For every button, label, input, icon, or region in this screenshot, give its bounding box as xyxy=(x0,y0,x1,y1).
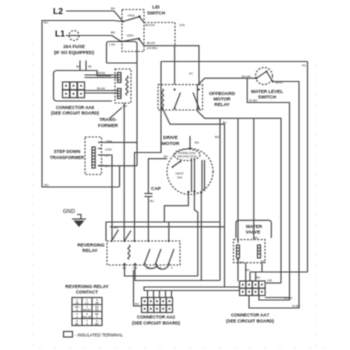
svg-text:WATER: WATER xyxy=(246,224,263,229)
svg-text:GND: GND xyxy=(63,209,75,215)
svg-text:RELAY: RELAY xyxy=(214,102,229,107)
svg-text:16A FUSE: 16A FUSE xyxy=(63,44,85,49)
insulated terminal legend xyxy=(64,332,73,338)
offboard relay coil xyxy=(162,89,164,109)
band stubs to AA2 xyxy=(147,291,149,298)
reversing relay contacts xyxy=(134,240,136,242)
svg-text:BK/BU: BK/BU xyxy=(83,308,91,312)
wire valve feed 2 xyxy=(253,118,255,239)
water valve loom xyxy=(236,220,271,238)
svg-text:OPEN: OPEN xyxy=(126,35,133,38)
wire L2 lead xyxy=(66,11,123,21)
svg-text:- INSULATED TERMINAL: - INSULATED TERMINAL xyxy=(75,333,124,338)
svg-text:32-BK: 32-BK xyxy=(249,99,259,103)
svg-text:P2: P2 xyxy=(302,64,306,68)
svg-text:BU/GN: BU/GN xyxy=(145,23,155,27)
lid switch box xyxy=(122,10,144,52)
wire relay feeds from motor area xyxy=(106,222,220,241)
svg-text:BU: BU xyxy=(44,183,48,187)
step down transformer coil bar xyxy=(92,147,95,168)
step down transformer dashed box xyxy=(85,137,102,175)
wire sdt BN down xyxy=(104,155,112,240)
wire AA7 bottom out xyxy=(265,297,290,299)
wire offboard drop right xyxy=(219,118,221,280)
svg-text:REVERSING: REVERSING xyxy=(77,243,104,248)
transformer T1 primary blocks xyxy=(118,73,122,83)
svg-text:BU: BU xyxy=(44,21,48,25)
motor windings xyxy=(191,158,193,192)
fuse F1 xyxy=(69,31,79,41)
svg-text:(IF SO EQUIPPED): (IF SO EQUIPPED) xyxy=(54,50,95,55)
svg-text:BU: BU xyxy=(88,65,92,69)
water level switch box xyxy=(247,78,289,300)
scan noise column right xyxy=(315,64,316,345)
svg-text:TRANSFORMER: TRANSFORMER xyxy=(50,155,85,160)
svg-text:BA/L.BU: BA/L.BU xyxy=(82,315,92,319)
svg-text:MOTOR: MOTOR xyxy=(162,141,180,147)
svg-text:SWITCH: SWITCH xyxy=(258,95,277,100)
water valve coil 1 xyxy=(237,245,240,258)
svg-text:(24-BK): (24-BK) xyxy=(147,46,158,50)
wire motor bottom leads xyxy=(164,192,188,222)
wire y172 xyxy=(119,166,121,187)
wire AA6 stubs up xyxy=(79,61,81,71)
wire right vertical x305 xyxy=(307,62,309,273)
svg-text:CONNECTOR AA7: CONNECTOR AA7 xyxy=(231,313,270,318)
offboard motor relay dashed box xyxy=(158,85,203,110)
wire main left vertical xyxy=(135,62,162,242)
relay bottom arcs xyxy=(145,266,158,269)
wire valve BK jog xyxy=(261,263,263,272)
svg-text:34-OR: 34-OR xyxy=(241,75,251,79)
svg-text:TRANS-: TRANS- xyxy=(99,117,117,122)
svg-text:OR: OR xyxy=(267,279,272,283)
wire valve feed 1 xyxy=(237,118,239,243)
svg-text:CONTACT: CONTACT xyxy=(76,290,98,295)
svg-text:CONNECTOR AA2: CONNECTOR AA2 xyxy=(137,315,176,320)
cent switch xyxy=(172,166,174,168)
svg-text:L2: L2 xyxy=(53,6,63,16)
svg-text:120V: 120V xyxy=(105,148,113,152)
svg-text:RD: RD xyxy=(215,135,220,139)
relay bottom U loop 2 xyxy=(135,265,220,281)
svg-text:BU: BU xyxy=(135,302,139,306)
svg-text:MOTOR: MOTOR xyxy=(213,97,231,102)
reversing relay contact table xyxy=(72,298,102,326)
transformer T1 secondary coil xyxy=(126,76,128,95)
svg-text:BU: BU xyxy=(164,155,168,159)
wire L1 lead xyxy=(66,36,121,42)
svg-text:(SEE CIRCUIT BOARD): (SEE CIRCUIT BOARD) xyxy=(51,111,100,116)
wire lid switch out 1 dotted xyxy=(140,17,145,23)
svg-text:CONNECTOR AA6: CONNECTOR AA6 xyxy=(56,105,95,110)
offboard relay contact 1 xyxy=(174,89,176,91)
pre-switch contacts left of relay xyxy=(111,240,113,242)
lid switch contact 1 xyxy=(122,21,124,23)
svg-text:RELAY: RELAY xyxy=(82,248,97,253)
svg-text:(SEE CIRCUIT BOARD): (SEE CIRCUIT BOARD) xyxy=(132,321,181,326)
svg-text:BU: BU xyxy=(246,268,250,272)
relay bottom U loop 1 xyxy=(125,265,198,276)
svg-text:DRIVE: DRIVE xyxy=(163,135,178,141)
wire long horizontal main xyxy=(161,61,308,63)
connector AA6 loop xyxy=(54,71,113,102)
offboard loom outline xyxy=(197,78,281,283)
svg-text:BK: BK xyxy=(76,65,80,69)
svg-text:REVERSING RELAY: REVERSING RELAY xyxy=(65,284,108,289)
svg-text:14-BK: 14-BK xyxy=(292,304,302,308)
svg-text:RD: RD xyxy=(256,276,261,280)
svg-text:1.5A: 1.5A xyxy=(109,42,116,46)
svg-text:SW: SW xyxy=(177,175,182,179)
wire offboard contact drop xyxy=(174,46,176,85)
wire AA6 to transformer pair 1 xyxy=(85,74,119,76)
svg-text:FORMER: FORMER xyxy=(98,123,119,128)
svg-text:BK: BK xyxy=(75,322,79,326)
connector AA2 pins xyxy=(142,298,173,313)
wire AA7 right pin xyxy=(266,282,281,284)
water level switch contacts xyxy=(256,68,273,85)
svg-text:RD: RD xyxy=(254,236,259,240)
svg-text:(24): (24) xyxy=(179,23,185,27)
svg-text:BR: BR xyxy=(111,31,116,35)
wire transformer bottom exit diagonal xyxy=(123,103,125,241)
water valve dashed box xyxy=(234,240,266,263)
step down transformer terminals xyxy=(98,141,104,143)
svg-text:L1: L1 xyxy=(55,29,65,39)
bottom band loom xyxy=(144,287,240,291)
water valve coil 2 xyxy=(258,245,261,258)
lid switch contact 2 xyxy=(121,41,123,43)
offboard relay contact 2 xyxy=(198,89,200,91)
wire vertical from loom A to transformer area xyxy=(136,63,138,166)
svg-text:RD: RD xyxy=(95,308,99,312)
svg-text:OFFBOARD: OFFBOARD xyxy=(209,91,236,96)
svg-text:(SEE CIRCUIT BOARD): (SEE CIRCUIT BOARD) xyxy=(226,319,275,324)
reversing relay dashed box xyxy=(107,241,180,265)
svg-text:WATER LEVEL: WATER LEVEL xyxy=(251,89,284,94)
wire AA2 left feed xyxy=(134,270,142,306)
motor bottom terminals xyxy=(187,191,189,193)
svg-text:2R: 2R xyxy=(95,301,98,305)
svg-text:RD/W: RD/W xyxy=(97,71,105,75)
wire loom box A below lid switch xyxy=(107,42,138,64)
connector AA6 pins xyxy=(63,82,85,98)
wire valve bottom center down xyxy=(245,263,247,281)
svg-text:SWITCH: SWITCH xyxy=(147,11,166,16)
svg-text:VALVE: VALVE xyxy=(246,230,261,235)
svg-text:OPEN: OPEN xyxy=(127,15,134,18)
wire y272 bus xyxy=(250,271,308,273)
wire sdt BU right xyxy=(98,165,137,167)
svg-text:BU/W: BU/W xyxy=(97,87,105,91)
svg-text:LID: LID xyxy=(152,5,160,10)
wire BU loop from corner to lid switch xyxy=(42,21,123,188)
svg-text:BU: BU xyxy=(150,199,154,203)
svg-text:BU/W: BU/W xyxy=(147,41,155,45)
svg-text:2R: 2R xyxy=(75,301,78,305)
scan noise row bottom xyxy=(39,347,325,348)
motor top terminal xyxy=(189,147,191,149)
svg-text:STEP DOWN: STEP DOWN xyxy=(54,149,81,154)
wire sdt 120v to vertical xyxy=(104,141,137,143)
svg-text:OR: OR xyxy=(239,261,244,265)
scan noise column left xyxy=(32,44,33,345)
svg-text:BK: BK xyxy=(95,322,99,326)
svg-text:CAP: CAP xyxy=(151,186,161,191)
connector AA7 pins xyxy=(240,281,266,296)
wire lid switch out 2 xyxy=(139,39,199,85)
reversing relay coil xyxy=(128,245,130,259)
wire water level switch BK/R out xyxy=(249,82,299,309)
transformer T1 dashed box xyxy=(115,69,131,103)
wire AA6 to transformer pair 2 xyxy=(85,90,119,92)
